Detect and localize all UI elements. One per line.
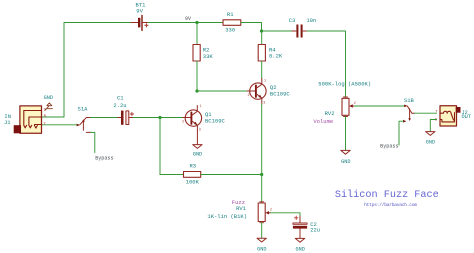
wire J1 tip to S1A pole — [42, 124, 77, 126]
svg-text:https://barbavach.com: https://barbavach.com — [364, 202, 417, 208]
svg-text:GND: GND — [426, 140, 435, 146]
wire S1A top throw to C1 — [91, 117, 117, 119]
battery BT1 — [131, 16, 149, 31]
svg-text:2: 2 — [270, 209, 272, 213]
svg-text:R1: R1 — [227, 11, 234, 18]
wire R3 left — [160, 174, 184, 176]
capacitor C1 — [117, 111, 134, 125]
svg-text:2.2u: 2.2u — [113, 102, 126, 109]
node R3 Q2 emitter junction — [260, 173, 263, 176]
svg-text:BC109C: BC109C — [205, 118, 226, 125]
wire C1 to Q1 base junction — [133, 117, 160, 119]
node C3 branch junction — [260, 29, 263, 32]
potentiometer RV2 — [342, 97, 356, 117]
wire S1B to J2 tip — [415, 112, 437, 114]
svg-text:J1: J1 — [4, 119, 11, 126]
svg-text:2: 2 — [248, 94, 250, 98]
svg-text:Bypass: Bypass — [380, 144, 398, 150]
svg-text:Volume: Volume — [313, 118, 333, 125]
connector J2 — [435, 106, 461, 126]
node Q1 base junction — [158, 116, 161, 119]
wire J2 sleeve to ground — [430, 120, 436, 132]
svg-text:22u: 22u — [310, 227, 320, 234]
ground Q1 emitter — [193, 131, 202, 148]
svg-text:GND: GND — [296, 246, 305, 252]
wire RV2 wiper to S1B — [354, 105, 404, 107]
svg-text:Silicon Fuzz Face: Silicon Fuzz Face — [335, 189, 439, 201]
node Q1 collector junction — [195, 89, 198, 92]
wire RV2 bottom to ground — [345, 117, 347, 151]
wire S1A bypass throw — [91, 132, 95, 152]
svg-text:GND: GND — [257, 246, 266, 252]
switch S1A — [77, 118, 91, 133]
resistor R4 — [258, 45, 265, 62]
wire R1 to C3 branch corner — [241, 23, 262, 32]
svg-text:33K: 33K — [203, 53, 214, 60]
svg-text:3: 3 — [199, 129, 201, 133]
wire R2 bottom to Q1 collector junction — [196, 61, 198, 91]
ground J2 — [426, 132, 435, 136]
resistor R2 — [193, 45, 200, 62]
wire battery minus to J1 ring pin — [42, 116, 64, 118]
wire S1B bypass throw — [399, 121, 403, 145]
svg-text:S1A: S1A — [78, 105, 89, 112]
svg-text:C3: C3 — [289, 17, 296, 24]
wire battery plus to R1 — [148, 22, 223, 24]
svg-text:9V: 9V — [185, 16, 191, 22]
svg-text:C1: C1 — [117, 95, 124, 102]
svg-text:3: 3 — [263, 102, 265, 106]
svg-text:GND: GND — [44, 95, 53, 101]
wire RV1 wiper to C2 — [271, 213, 301, 217]
svg-text:2: 2 — [354, 102, 356, 106]
ground flag J1 sleeve — [45, 103, 52, 110]
ground RV1 — [257, 238, 266, 242]
svg-text:RV2: RV2 — [325, 110, 335, 117]
wire junction to Q1 base — [160, 117, 182, 119]
wire RV1 bottom to ground — [261, 223, 263, 239]
wire Q1 collector junction to Q2 base — [197, 90, 247, 92]
wire junction down to RV1 — [261, 175, 263, 204]
wire R4 bottom to Q2 collector — [261, 61, 263, 79]
wire 9V rail left of battery — [64, 23, 132, 118]
svg-text:2: 2 — [182, 120, 184, 124]
wire Q2 emitter down to R3 junction — [261, 104, 263, 175]
wire R3 right to junction — [201, 174, 262, 176]
svg-text:GND: GND — [341, 159, 350, 165]
svg-text:10n: 10n — [306, 17, 316, 24]
svg-text:1K-lin (B1K): 1K-lin (B1K) — [207, 213, 247, 220]
node 9V junction — [195, 21, 198, 24]
transistor Q1 — [182, 105, 202, 132]
wire R2 top — [196, 23, 198, 45]
svg-text:500K-log (A500K): 500K-log (A500K) — [318, 81, 371, 88]
resistor R1 — [223, 20, 241, 26]
wire R4 top — [261, 31, 263, 45]
svg-text:RV1: RV1 — [236, 205, 247, 212]
connector J1 — [14, 106, 47, 133]
capacitor C2 — [293, 216, 307, 238]
svg-text:BC109C: BC109C — [270, 91, 291, 98]
svg-text:9V: 9V — [136, 8, 143, 15]
wire junction to C3 — [262, 30, 293, 32]
svg-text:S1B: S1B — [404, 97, 415, 104]
switch S1B — [403, 105, 415, 123]
svg-text:OUT: OUT — [462, 114, 472, 120]
svg-text:GND: GND — [193, 152, 202, 158]
svg-text:330: 330 — [225, 27, 235, 34]
wire Q1 base junction down to R3 — [159, 118, 161, 175]
svg-text:1: 1 — [264, 80, 266, 84]
ground RV2 — [341, 150, 350, 154]
transistor Q2 — [247, 79, 266, 106]
potentiometer RV1 — [258, 202, 272, 223]
svg-text:8.2K: 8.2K — [269, 53, 283, 60]
capacitor C3 — [292, 25, 307, 38]
svg-text:100K: 100K — [186, 179, 200, 186]
svg-text:1: 1 — [200, 105, 202, 109]
svg-text:Bypass: Bypass — [95, 156, 113, 162]
wire C3 to RV2 — [307, 31, 346, 97]
resistor R3 — [184, 172, 201, 178]
ground C2 — [295, 238, 304, 242]
svg-text:R3: R3 — [189, 163, 196, 170]
